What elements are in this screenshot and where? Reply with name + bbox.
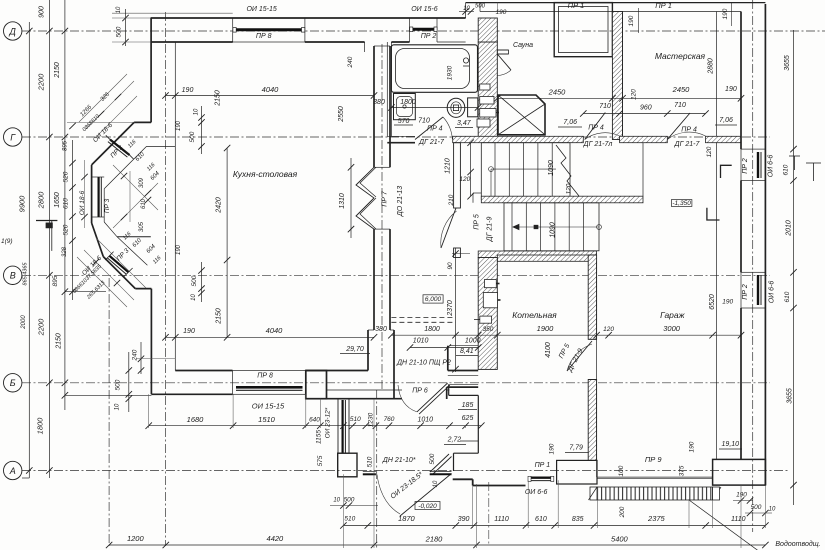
svg-text:120: 120 bbox=[459, 176, 470, 183]
bay top cap wall inner bbox=[147, 145, 176, 147]
axis bubble А bbox=[4, 461, 22, 479]
level box -1,350 bbox=[671, 200, 692, 207]
axis line В bbox=[22, 274, 770, 276]
svg-text:710: 710 bbox=[418, 118, 430, 125]
svg-text:Мастерская: Мастерская bbox=[655, 51, 706, 61]
svg-text:1110: 1110 bbox=[494, 516, 509, 523]
bay west dim line bbox=[84, 160, 86, 228]
svg-text:2150: 2150 bbox=[215, 90, 222, 107]
window reveal jogs SW bbox=[105, 252, 113, 260]
left dimension chain line 3 bbox=[64, 0, 66, 410]
workshop east inner line bbox=[715, 12, 717, 137]
svg-text:895: 895 bbox=[52, 275, 59, 286]
svg-text:2880: 2880 bbox=[708, 58, 715, 75]
bay cap extension line bbox=[67, 121, 134, 123]
bay inner wall west face bbox=[103, 189, 105, 222]
bathroom south wall thin segment bbox=[387, 135, 415, 137]
boiler equipment rect 2 bbox=[483, 293, 497, 308]
west wall lower outer edge bbox=[150, 289, 152, 395]
door ПР 5 / ДГ 21-9 (garage) leaf and arc bbox=[567, 341, 592, 371]
svg-text:1800: 1800 bbox=[424, 326, 440, 333]
window ПР 2 / ОИ 6-6 upper bbox=[741, 149, 765, 180]
svg-text:380: 380 bbox=[373, 99, 385, 106]
svg-text:1(9): 1(9) bbox=[1, 238, 13, 245]
svg-text:350: 350 bbox=[483, 326, 494, 333]
bathroom west wall bbox=[386, 42, 388, 137]
svg-text:900: 900 bbox=[39, 6, 46, 18]
svg-text:1650: 1650 bbox=[54, 192, 61, 208]
garage SE corner block bbox=[713, 459, 766, 485]
svg-text:10: 10 bbox=[191, 294, 197, 301]
svg-text:960: 960 bbox=[640, 105, 652, 112]
svg-text:2550: 2550 bbox=[338, 106, 345, 123]
level box 6,000 bbox=[423, 295, 443, 303]
svg-text:10: 10 bbox=[115, 403, 121, 410]
svg-text:100: 100 bbox=[618, 465, 625, 476]
svg-text:190: 190 bbox=[176, 244, 182, 255]
svg-text:ПР 6: ПР 6 bbox=[412, 388, 428, 395]
sauna-workshop hatched wall bbox=[612, 12, 622, 140]
entrance door ДН 21-10 leaf and arc bbox=[377, 475, 400, 515]
svg-text:ПР 2: ПР 2 bbox=[742, 284, 749, 300]
svg-text:ПР 2: ПР 2 bbox=[742, 158, 749, 174]
south wall Б outer edge bbox=[151, 393, 232, 395]
svg-text:-0,020: -0,020 bbox=[418, 503, 437, 510]
bathtub bbox=[391, 45, 477, 93]
window ПР 1 alcove (double rectangle) bbox=[554, 3, 612, 57]
axis bubble Д bbox=[4, 22, 22, 40]
svg-text:90: 90 bbox=[447, 262, 454, 270]
svg-text:760: 760 bbox=[384, 416, 395, 423]
sauna/workshop dim row bbox=[497, 97, 741, 99]
bay inner wall NW diagonal bbox=[104, 146, 146, 188]
svg-text:ОИ 6-6: ОИ 6-6 bbox=[769, 281, 776, 304]
svg-text:10: 10 bbox=[194, 108, 200, 115]
svg-text:ДГ 21-7: ДГ 21-7 bbox=[674, 141, 701, 148]
svg-text:190: 190 bbox=[736, 492, 747, 499]
boiler equipment rect 3 bbox=[480, 316, 492, 323]
window ОИ 15-6 / ПР 2 (north) bbox=[409, 18, 411, 42]
svg-text:ДГ 21-9: ДГ 21-9 bbox=[487, 217, 494, 243]
svg-text:9900: 9900 bbox=[18, 195, 27, 213]
west wall outer edge bbox=[150, 18, 152, 122]
svg-text:1900: 1900 bbox=[537, 324, 555, 333]
left chain connector lines bbox=[65, 291, 106, 293]
svg-text:625: 625 bbox=[462, 415, 474, 422]
axis bubble Г bbox=[4, 128, 22, 146]
vertical axis line 4 (east wall) bbox=[752, 0, 754, 532]
svg-text:ПР 1: ПР 1 bbox=[568, 1, 585, 10]
water drain leader line bbox=[689, 500, 761, 550]
door ПР 5 / ДГ 21-9 (hall) leaf and arc bbox=[441, 208, 456, 248]
svg-text:240: 240 bbox=[347, 56, 354, 68]
porch east walls bbox=[448, 385, 450, 395]
svg-text:2370: 2370 bbox=[447, 300, 454, 317]
svg-text:1800: 1800 bbox=[400, 99, 416, 106]
bay outer wall west face bbox=[91, 165, 93, 223]
vestibule north wall bbox=[327, 389, 403, 391]
svg-text:190: 190 bbox=[183, 328, 195, 335]
svg-text:ДН 21-10 ПЩ Р2: ДН 21-10 ПЩ Р2 bbox=[396, 360, 451, 367]
svg-text:1310: 1310 bbox=[339, 193, 346, 209]
stair upper flight treads bbox=[481, 143, 570, 200]
door dim row (Г wall) bbox=[583, 113, 705, 115]
axis bubble Б bbox=[4, 374, 22, 392]
stair middle landing hatched wall bbox=[481, 196, 643, 203]
entrance threshold bars east bbox=[430, 470, 452, 472]
bay cap wall dims 10/500 bbox=[201, 106, 203, 154]
east side dim chain bbox=[793, 30, 795, 505]
svg-text:380: 380 bbox=[375, 326, 387, 333]
roof overhang line bbox=[112, 12, 233, 14]
svg-text:1510: 1510 bbox=[258, 415, 276, 424]
towel radiator fixtures bbox=[480, 84, 490, 90]
svg-text:2150: 2150 bbox=[54, 62, 61, 79]
west wall inner edge bbox=[174, 42, 176, 146]
svg-text:1870: 1870 bbox=[398, 514, 416, 523]
svg-text:1200: 1200 bbox=[127, 534, 145, 543]
svg-text:4040: 4040 bbox=[262, 85, 280, 94]
kitchen bottom dimension line bbox=[166, 336, 375, 338]
left dimension chain line 2 bbox=[48, 0, 50, 478]
south-east kitchen corner block bbox=[306, 371, 327, 399]
svg-text:610: 610 bbox=[141, 198, 147, 209]
svg-text:ДГ 21-7: ДГ 21-7 bbox=[418, 139, 445, 146]
svg-text:2450: 2450 bbox=[672, 85, 691, 94]
door ДГ 21-7л leaf and arc bbox=[585, 113, 606, 140]
east wall step bracket 2 bbox=[707, 208, 720, 220]
svg-text:120: 120 bbox=[603, 326, 614, 333]
svg-text:510: 510 bbox=[344, 516, 355, 523]
boiler equipment rect 1 bbox=[485, 280, 497, 288]
svg-text:500: 500 bbox=[344, 497, 355, 504]
svg-text:ПР 4: ПР 4 bbox=[427, 126, 443, 133]
boiler west hatched wall bbox=[478, 258, 497, 370]
svg-text:190: 190 bbox=[182, 87, 194, 94]
entrance second door ОИ 23-18.5 leaf bbox=[400, 474, 452, 517]
top right corner marks bbox=[806, 162, 821, 164]
svg-text:1230: 1230 bbox=[368, 412, 375, 427]
svg-text:2,72: 2,72 bbox=[447, 437, 462, 444]
garage gate ramp hatched bbox=[597, 487, 713, 500]
left dimension chain line 4 (bay) bbox=[72, 140, 74, 300]
Г wall hatched segment 1 (under bath/stairs) bbox=[453, 136, 584, 142]
kitchen top dimension line bbox=[166, 95, 375, 97]
svg-text:Кухня-столовая: Кухня-столовая bbox=[233, 169, 298, 179]
north wall outer edge bbox=[151, 17, 466, 19]
svg-text:10: 10 bbox=[116, 6, 122, 13]
svg-text:375: 375 bbox=[679, 465, 686, 476]
svg-text:ОИ 15-15: ОИ 15-15 bbox=[246, 6, 276, 13]
svg-text:500: 500 bbox=[116, 26, 123, 37]
svg-text:ПР 7: ПР 7 bbox=[382, 190, 389, 207]
svg-text:510: 510 bbox=[367, 456, 374, 467]
stair walk line lower bbox=[513, 226, 599, 228]
svg-text:3000: 3000 bbox=[663, 324, 681, 333]
svg-text:Сауна: Сауна bbox=[513, 42, 533, 49]
svg-text:В: В bbox=[10, 271, 16, 281]
sauna wall stub bbox=[497, 50, 508, 54]
svg-text:10: 10 bbox=[463, 6, 470, 12]
svg-text:4100: 4100 bbox=[545, 342, 552, 358]
svg-text:640: 640 bbox=[309, 417, 320, 424]
stair break line bbox=[556, 145, 579, 196]
svg-text:500: 500 bbox=[475, 4, 486, 10]
south window ОИ 6-6 bars bbox=[528, 477, 553, 479]
kitchen inner west edge bbox=[174, 146, 176, 370]
svg-text:Д: Д bbox=[9, 26, 17, 36]
boiler north hatched wall bbox=[497, 255, 596, 261]
stair-hall west wall upper bbox=[454, 143, 461, 208]
bathroom door ПР 4 / ДГ 21-7 leaf bbox=[415, 117, 443, 140]
svg-text:120: 120 bbox=[565, 183, 572, 194]
svg-text:2150: 2150 bbox=[56, 333, 63, 350]
svg-text:500: 500 bbox=[115, 379, 122, 390]
svg-text:1155: 1155 bbox=[316, 430, 323, 444]
svg-text:3655: 3655 bbox=[784, 55, 791, 71]
svg-text:610: 610 bbox=[535, 516, 547, 523]
stair walk line upper bbox=[490, 169, 492, 199]
stair lower flight treads bbox=[504, 203, 599, 251]
sink bbox=[394, 94, 416, 120]
sauna north wall bbox=[466, 2, 766, 4]
svg-text:1800: 1800 bbox=[36, 417, 45, 435]
svg-text:1210: 1210 bbox=[445, 158, 452, 174]
svg-text:710: 710 bbox=[599, 103, 611, 110]
axis line А bbox=[22, 470, 790, 472]
svg-text:7,06: 7,06 bbox=[563, 119, 577, 126]
boiler east hatched wall upper bbox=[588, 255, 596, 339]
svg-text:ДО 21-13: ДО 21-13 bbox=[397, 186, 404, 217]
stair south hatched wall bbox=[478, 251, 596, 258]
interior wall kitchen-hall west edge bbox=[373, 46, 375, 167]
svg-text:305: 305 bbox=[139, 221, 145, 232]
svg-text:3655: 3655 bbox=[786, 388, 793, 404]
svg-text:Б: Б bbox=[10, 378, 16, 388]
dimension row A (y=425.7) bbox=[149, 425, 482, 427]
svg-text:10: 10 bbox=[433, 480, 439, 487]
porch south wall stepped bbox=[453, 478, 473, 480]
north wall inner edge segments bbox=[151, 41, 233, 43]
bathroom east hatched wall bbox=[478, 42, 497, 137]
sauna west hatched wall bbox=[478, 18, 497, 42]
window reveal jogs NW bbox=[106, 135, 114, 143]
svg-text:10: 10 bbox=[769, 507, 776, 513]
svg-text:ОИ 15-6: ОИ 15-6 bbox=[411, 6, 438, 13]
svg-text:895: 895 bbox=[63, 140, 69, 151]
furnace block with X bbox=[498, 95, 545, 135]
svg-text:210: 210 bbox=[448, 194, 455, 206]
svg-text:610: 610 bbox=[784, 291, 791, 302]
svg-text:120: 120 bbox=[706, 146, 713, 157]
svg-text:ОИ 6-6: ОИ 6-6 bbox=[768, 155, 775, 178]
svg-text:570: 570 bbox=[398, 118, 410, 125]
workshop west inner line bbox=[622, 12, 624, 137]
svg-text:309: 309 bbox=[139, 177, 145, 188]
svg-text:185: 185 bbox=[462, 402, 474, 409]
svg-text:2200: 2200 bbox=[37, 73, 46, 92]
svg-text:5400: 5400 bbox=[611, 535, 629, 544]
svg-text:-1,350: -1,350 bbox=[672, 200, 691, 207]
bay to SW corner cap bbox=[135, 288, 151, 290]
svg-text:500: 500 bbox=[751, 504, 762, 511]
vestibule west wall with window ОИ 23-12 bbox=[338, 399, 349, 454]
Г wall hatched segment 3 bbox=[706, 136, 742, 142]
garage interior east line bbox=[715, 143, 717, 460]
vertical axis line 1 (bay) bbox=[108, 278, 110, 546]
svg-text:190: 190 bbox=[722, 8, 729, 19]
bay outer wall steep corner bbox=[92, 223, 104, 257]
vestibule SW pier bbox=[338, 453, 357, 477]
svg-text:А: А bbox=[9, 466, 16, 476]
south wall Б inner edge bbox=[175, 370, 232, 372]
window ОИ 18-6 lower bar bbox=[109, 256, 128, 272]
svg-text:500: 500 bbox=[189, 131, 196, 142]
east wall step bracket 1 bbox=[721, 165, 732, 178]
svg-text:190: 190 bbox=[725, 86, 737, 93]
window axis dash line bbox=[488, 482, 490, 546]
svg-text:520: 520 bbox=[63, 224, 70, 235]
svg-text:328: 328 bbox=[62, 246, 68, 257]
svg-text:ПР 8: ПР 8 bbox=[257, 373, 273, 380]
svg-text:ПР 3: ПР 3 bbox=[104, 198, 111, 213]
dimension row E (y=545) bbox=[109, 544, 765, 546]
svg-text:2800: 2800 bbox=[37, 191, 46, 210]
svg-text:500: 500 bbox=[429, 453, 436, 464]
svg-text:190: 190 bbox=[688, 441, 695, 452]
svg-text:2010: 2010 bbox=[785, 220, 792, 237]
svg-text:ОИ 23-12*: ОИ 23-12* bbox=[324, 407, 331, 438]
window ОИ 18-6 west bar bbox=[97, 177, 99, 217]
svg-text:19,10: 19,10 bbox=[722, 441, 740, 448]
svg-text:390: 390 bbox=[458, 516, 470, 523]
svg-text:ОИ 18-6: ОИ 18-6 bbox=[79, 190, 86, 215]
svg-text:7,79: 7,79 bbox=[569, 445, 583, 452]
svg-text:ПР 5: ПР 5 bbox=[474, 214, 481, 230]
window ОИ 15-15 / ПР 8 (south) bbox=[233, 371, 306, 395]
east wall inner edge segments bbox=[740, 12, 742, 150]
axis line Г bbox=[22, 136, 770, 138]
svg-text:200: 200 bbox=[619, 506, 626, 518]
extension lines top bbox=[496, 3, 498, 12]
svg-text:2200: 2200 bbox=[37, 318, 46, 337]
Г wall hatched segment 2 bbox=[620, 136, 668, 142]
svg-text:7,06: 7,06 bbox=[719, 117, 733, 124]
svg-text:ПР 9: ПР 9 bbox=[645, 455, 663, 464]
bay interior dimension lines bbox=[113, 165, 158, 210]
svg-text:1110: 1110 bbox=[731, 516, 746, 523]
svg-text:29,70: 29,70 bbox=[345, 346, 364, 353]
sauna door leaf and arc bbox=[497, 54, 511, 70]
axis bubble В bbox=[4, 266, 22, 284]
garage gate threshold lines bbox=[597, 476, 713, 478]
boiler east hatched wall lower bbox=[588, 380, 596, 461]
svg-text:ПР 1: ПР 1 bbox=[655, 1, 672, 10]
svg-text:520: 520 bbox=[63, 171, 70, 182]
window ПР 2 / ОИ 6-6 lower bbox=[741, 272, 765, 308]
svg-text:ОИ 15-15: ОИ 15-15 bbox=[252, 402, 285, 411]
svg-text:2375: 2375 bbox=[647, 514, 666, 523]
interior wall kitchen-hall east edge bbox=[389, 46, 391, 167]
svg-text:6520: 6520 bbox=[709, 294, 716, 310]
svg-text:2150: 2150 bbox=[216, 308, 223, 325]
svg-text:240: 240 bbox=[132, 349, 139, 361]
svg-text:190: 190 bbox=[628, 15, 635, 26]
svg-text:2180: 2180 bbox=[425, 535, 444, 544]
svg-text:190: 190 bbox=[722, 299, 733, 306]
SW corner wall dims (240/500/10) bbox=[140, 342, 142, 374]
svg-text:500: 500 bbox=[191, 275, 198, 286]
svg-text:510: 510 bbox=[350, 416, 361, 423]
stair-hall west wall lower bbox=[454, 248, 461, 258]
left dimension chain line 1 (9900 overall) bbox=[28, 22, 30, 478]
svg-text:1000: 1000 bbox=[465, 338, 481, 345]
svg-text:190: 190 bbox=[176, 120, 182, 131]
toilet bbox=[447, 98, 465, 117]
garage west inner line bbox=[596, 261, 598, 477]
pier between ПР1 and gate bbox=[557, 460, 597, 484]
svg-text:6,000: 6,000 bbox=[425, 296, 442, 303]
bay dimension diagonal lines upper bbox=[86, 81, 134, 129]
svg-text:Котельная: Котельная bbox=[512, 310, 557, 320]
gate extension line bbox=[688, 500, 690, 528]
svg-text:190: 190 bbox=[548, 443, 555, 454]
svg-text:ДН 21-10*: ДН 21-10* bbox=[382, 457, 416, 464]
vertical axis line 2 (kitchen west) bbox=[165, 12, 167, 546]
svg-text:610: 610 bbox=[63, 198, 70, 209]
double door ДО 21-13 / ПР 7 folding leaves bbox=[356, 167, 374, 229]
svg-text:2000: 2000 bbox=[21, 315, 27, 330]
svg-text:710: 710 bbox=[674, 102, 686, 109]
svg-text:ПР 4: ПР 4 bbox=[588, 125, 604, 132]
bay top cap wall outer bbox=[134, 121, 151, 123]
svg-text:865.4365: 865.4365 bbox=[23, 262, 29, 286]
dimension row D (y=525.5) bbox=[343, 525, 765, 527]
svg-text:3,47: 3,47 bbox=[457, 120, 472, 127]
axis line Д bbox=[22, 30, 825, 32]
svg-text:4040: 4040 bbox=[266, 326, 284, 335]
svg-text:1930: 1930 bbox=[447, 65, 454, 80]
svg-text:1010: 1010 bbox=[418, 417, 434, 424]
bay dimension diagonal lines lower bbox=[84, 250, 134, 300]
svg-text:610: 610 bbox=[783, 164, 790, 175]
bay lower horizontal joint bbox=[117, 236, 151, 238]
svg-text:Водоотводщ.: Водоотводщ. bbox=[775, 540, 820, 548]
window ПР 3 NW bar bbox=[110, 140, 130, 156]
bay lower diagonal wall outer (ОИ 18-6) bbox=[103, 257, 135, 289]
east wall outer edge bbox=[764, 4, 766, 485]
door ПР 6 opening and leaf bbox=[417, 383, 448, 412]
svg-text:1090: 1090 bbox=[550, 222, 557, 238]
svg-text:Гараж: Гараж bbox=[660, 310, 686, 320]
svg-text:1680: 1680 bbox=[187, 415, 205, 424]
svg-text:835: 835 bbox=[572, 516, 584, 523]
svg-text:2420: 2420 bbox=[216, 197, 223, 214]
svg-text:ПР 2: ПР 2 bbox=[421, 33, 437, 40]
garage dim row bbox=[391, 334, 741, 336]
kitchen vertical dimension line (2420/2150) bbox=[226, 148, 228, 337]
svg-text:ДГ 21-7л: ДГ 21-7л bbox=[583, 141, 613, 148]
bay outer wall NW diagonal bbox=[92, 122, 135, 164]
bay lower diagonal wall inner bbox=[104, 222, 117, 237]
svg-text:8,41: 8,41 bbox=[460, 348, 474, 355]
pantry walls bbox=[447, 346, 449, 371]
svg-text:ПР 1: ПР 1 bbox=[535, 462, 551, 469]
svg-text:120: 120 bbox=[631, 89, 638, 100]
door ПР 4 / ДГ 21-7 (workshop) leaf and arc bbox=[667, 113, 690, 140]
window ОИ 15-15 / ПР 8 (north) bbox=[233, 18, 305, 42]
svg-text:4420: 4420 bbox=[267, 534, 285, 543]
